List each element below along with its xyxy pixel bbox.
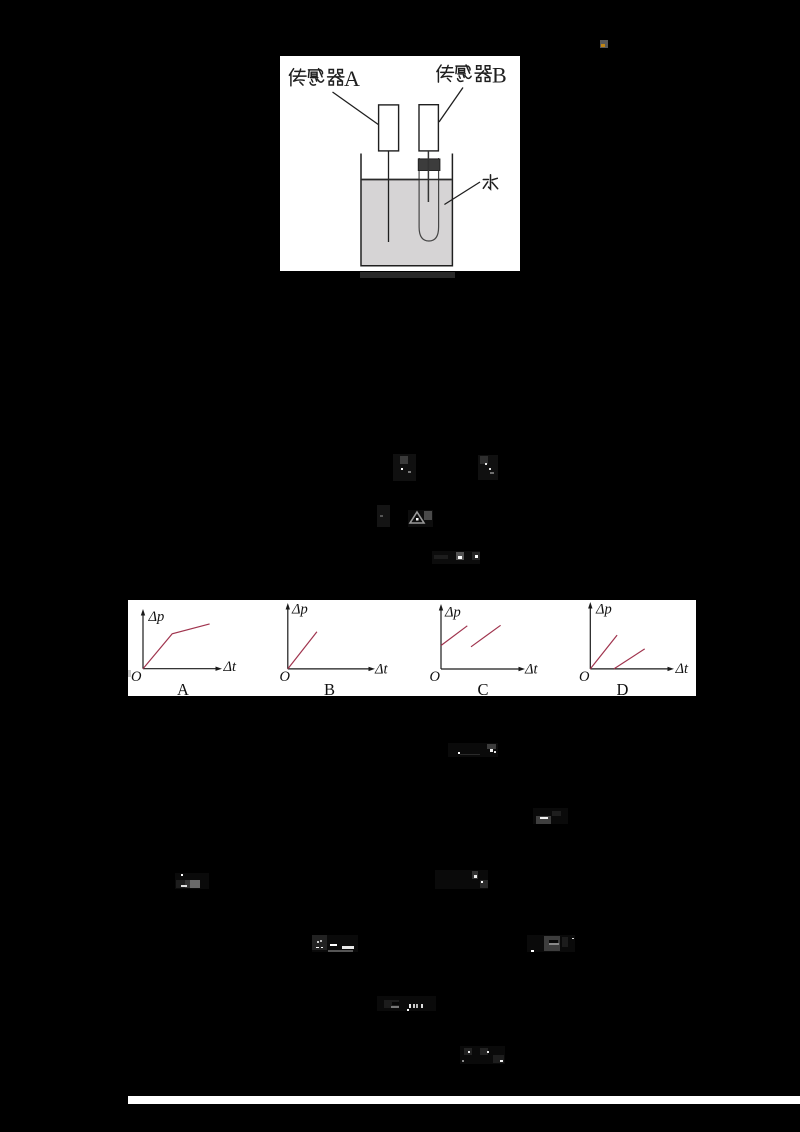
probe A	[388, 151, 390, 242]
tube interior above waterline	[420, 168, 438, 179]
graph D axes	[589, 607, 591, 669]
graph C axes	[440, 609, 442, 669]
beaker outline	[361, 153, 452, 265]
faint cluster C8	[175, 873, 209, 889]
water line over tube	[362, 178, 452, 180]
graph strip	[128, 600, 696, 696]
label 传感器B	[437, 65, 492, 82]
svg-text:A: A	[344, 66, 360, 91]
faint cluster C3	[377, 505, 390, 527]
water fill	[362, 179, 452, 265]
svg-text:Δt: Δt	[374, 662, 389, 678]
svg-text:Δp: Δp	[595, 602, 612, 618]
probe B	[427, 151, 429, 202]
水 label	[483, 174, 497, 188]
dark strip under panel	[360, 272, 455, 278]
svg-text:D: D	[617, 680, 629, 696]
svg-text:C: C	[478, 680, 489, 696]
svg-text:A: A	[177, 680, 189, 696]
faint cluster C10	[312, 935, 358, 952]
test tube	[419, 158, 439, 241]
svg-text:Δp: Δp	[291, 602, 308, 618]
svg-text:O: O	[131, 669, 142, 685]
graph A axes	[142, 614, 144, 669]
svg-text:Δp: Δp	[148, 609, 165, 625]
svg-text:Δt: Δt	[223, 659, 238, 675]
svg-text:Δt: Δt	[524, 662, 539, 678]
sensor A box	[379, 105, 399, 151]
label 传感器A	[289, 68, 344, 85]
svg-text:B: B	[492, 62, 507, 87]
svg-text:Δt: Δt	[675, 661, 690, 677]
faint cluster C13	[460, 1046, 505, 1064]
water line	[362, 178, 452, 180]
graph B axes	[287, 608, 289, 669]
svg-text:O: O	[430, 669, 441, 685]
stopper	[418, 159, 440, 171]
sensor B box	[419, 104, 438, 150]
faint cluster C1	[393, 454, 416, 481]
faint cluster C5	[432, 551, 480, 564]
leader line for 水	[444, 182, 480, 205]
leader line B	[439, 87, 463, 122]
leader line A	[333, 92, 380, 125]
faint cluster C6	[448, 743, 498, 757]
svg-text:Δp: Δp	[444, 605, 461, 621]
faint cluster C9	[435, 870, 488, 889]
faint cluster C12	[377, 996, 436, 1011]
axis labels	[131, 602, 689, 686]
red curves	[143, 624, 645, 669]
faint cluster C4 triangle	[408, 510, 433, 527]
faint cluster C11	[527, 935, 575, 952]
svg-text:O: O	[280, 669, 291, 685]
faint cluster C2	[478, 455, 498, 480]
svg-text:O: O	[579, 669, 590, 685]
bottom white bar	[128, 1096, 800, 1104]
svg-text:B: B	[324, 680, 335, 696]
white panel: sensor/beaker diagram	[280, 56, 520, 272]
faint cluster C7	[533, 808, 568, 824]
tiny broken-image icon top right	[600, 40, 608, 48]
